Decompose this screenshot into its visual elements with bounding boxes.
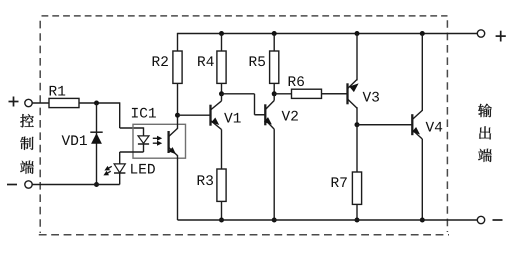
V4 label bbox=[426, 122, 443, 132]
wire node to V4 base bbox=[357, 124, 412, 126]
wire V1 collector to V2 base bbox=[222, 94, 266, 115]
wire node to R6 bbox=[274, 93, 291, 95]
output + terminal bbox=[477, 30, 484, 37]
wire rail to R4 bbox=[221, 34, 223, 52]
control + terminal bbox=[25, 99, 32, 106]
output - terminal bbox=[477, 216, 484, 223]
node R5/R6/V2 collector bbox=[272, 91, 277, 96]
wire V2 collector bbox=[273, 94, 275, 101]
resistor R1 bbox=[49, 86, 79, 108]
node V2 emitter/ground rail bbox=[272, 218, 277, 223]
output + polarity sign bbox=[496, 31, 506, 42]
wire R7 to ground rail bbox=[356, 204, 358, 220]
label 输出端 output terminal bbox=[478, 104, 492, 162]
diode VD1 bbox=[62, 132, 103, 145]
wire positive output rail bbox=[178, 33, 478, 35]
node R4/V1 collector bbox=[219, 91, 224, 96]
node R3/ground rail bbox=[219, 218, 224, 223]
optocoupler IC1 package bbox=[132, 108, 186, 158]
wire V3 emitter to rail bbox=[356, 34, 358, 81]
LED indicator diode bbox=[114, 164, 155, 185]
IC1 phototransistor bbox=[169, 128, 178, 155]
control - terminal bbox=[25, 181, 32, 188]
wire ground/negative output rail bbox=[178, 219, 478, 221]
wire rail to R5 bbox=[273, 34, 275, 52]
node rail/V4 bbox=[420, 31, 425, 36]
label 控制端 control terminal bbox=[20, 114, 34, 174]
wire V1 collector bbox=[221, 94, 223, 101]
node rail/R4 bbox=[219, 31, 224, 36]
dashed enclosure border bbox=[39, 16, 449, 235]
output - polarity sign bbox=[493, 219, 503, 221]
V3 label bbox=[363, 92, 379, 102]
IC1 light coupling arrows bbox=[153, 136, 162, 146]
wire V1 emitter to R3 bbox=[221, 130, 223, 170]
wire V2 emitter to ground rail bbox=[273, 129, 275, 220]
transistor V3 bbox=[322, 80, 359, 109]
IC1 internal LED bbox=[138, 127, 149, 144]
wire terminal to R1 bbox=[32, 102, 49, 104]
node V4 emitter/ground rail bbox=[420, 218, 425, 223]
wire V3 collector down bbox=[356, 107, 358, 125]
node VD1 to negative rail bbox=[94, 182, 99, 187]
node R1/VD1 junction bbox=[94, 101, 99, 106]
wire R5 to V2 collector node bbox=[273, 83, 275, 93]
resistor R7 bbox=[332, 172, 362, 204]
resistor R3 bbox=[198, 169, 226, 201]
node R2/V1 base bbox=[175, 113, 180, 118]
V1 label bbox=[224, 113, 241, 123]
wire V4 emitter to ground rail bbox=[421, 139, 423, 220]
control + polarity sign bbox=[9, 97, 19, 107]
wire R4 to V1 collector node bbox=[221, 83, 223, 93]
node R7/ground rail bbox=[355, 218, 360, 223]
node rail/V3 bbox=[355, 31, 360, 36]
resistor R6 bbox=[289, 76, 322, 98]
wire R2 to phototransistor collector bbox=[177, 83, 179, 128]
node rail/R5 bbox=[272, 31, 277, 36]
node V3/R7/V4 base bbox=[355, 122, 360, 127]
wire VD1 branch bbox=[96, 103, 98, 185]
transistor V4 bbox=[357, 110, 422, 139]
resistor R4 bbox=[198, 51, 226, 83]
wire R1 to IC1 input bbox=[79, 102, 144, 128]
wire R6 to V3 base bbox=[322, 93, 348, 95]
transistor V2 bbox=[255, 101, 275, 130]
wire rail to R2 bbox=[177, 33, 179, 51]
V2 label bbox=[282, 111, 298, 121]
control - polarity sign bbox=[7, 184, 17, 186]
LED emission arrows bbox=[103, 166, 111, 176]
transistor V1 bbox=[178, 101, 222, 130]
wire IC1 LED cathode to LED indicator bbox=[120, 144, 144, 164]
wire phototransistor emitter down bbox=[177, 155, 179, 220]
wire negative rail control side bbox=[32, 184, 120, 186]
resistor R2 bbox=[153, 51, 182, 83]
wire V4 collector to rail bbox=[421, 34, 423, 111]
wire node to R7 bbox=[356, 125, 358, 172]
resistor R5 bbox=[250, 51, 279, 83]
wire R3 to ground rail bbox=[221, 201, 223, 220]
